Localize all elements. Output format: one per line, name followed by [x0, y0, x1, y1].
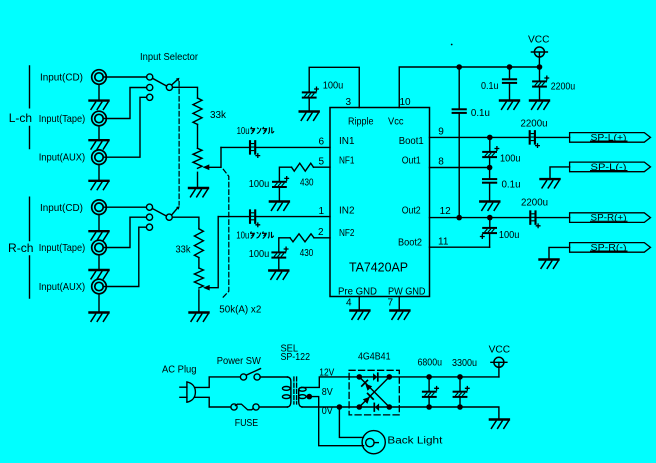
svg-text:10u: 10u: [237, 126, 250, 137]
wire C15 top: [459, 377, 461, 391]
bridge diagonal BL-TR: [359, 377, 389, 407]
wire pin9 Boot1 row: [430, 136, 530, 138]
terminal SP-L(+) underline: [591, 140, 628, 142]
fuse F1 contact 2: [253, 404, 259, 410]
capacitor C3 100u NF1: [273, 177, 289, 187]
wire rail to C6: [458, 67, 460, 109]
svg-text:0.1u: 0.1u: [502, 180, 521, 191]
transformer T1 secondary loop 2: [299, 395, 306, 399]
wire J5 to ground: [98, 255, 100, 269]
switch SW1a contact CD: [147, 74, 153, 80]
wire J6 to selector: [104, 227, 147, 286]
diode D1 top: [373, 373, 378, 381]
pot L wiper wire: [209, 147, 221, 167]
resistor 430 R: [290, 234, 314, 242]
node Out2 junction C12: [487, 215, 493, 221]
switch gang dashed link: [178, 82, 180, 206]
capacitor C1 10u tantalum L: [250, 141, 260, 157]
svg-text:100u: 100u: [323, 81, 344, 92]
wire C5 to ground: [308, 98, 310, 110]
svg-text:8: 8: [438, 157, 444, 168]
svg-text:0V: 0V: [322, 406, 333, 417]
capacitor C5 100u ripple: [303, 87, 319, 97]
svg-text:Input(Tape): Input(Tape): [39, 114, 85, 125]
ground under C7: [500, 101, 519, 110]
terminal SP-L(-): [570, 162, 651, 172]
svg-text:100u: 100u: [249, 249, 269, 260]
wire wiper R to C2: [218, 216, 249, 218]
wire pot R to ground: [198, 290, 200, 311]
capacitor C11 2200u SP-L coupling: [530, 131, 540, 147]
node Vcc rail junction 2: [507, 64, 513, 70]
switch SW1b gang stub: [172, 208, 178, 215]
ground pin4: [350, 311, 369, 320]
wire J4 to selector: [104, 206, 147, 208]
switch SW2 arm: [247, 369, 261, 375]
pot R wiper wire: [209, 217, 218, 288]
svg-text:100u: 100u: [500, 153, 521, 164]
node 6800u top: [426, 374, 432, 380]
wire VCC symbol drop: [538, 52, 540, 67]
node 3300u top: [457, 374, 463, 380]
ground under J5: [90, 270, 109, 279]
svg-text:Pre GND: Pre GND: [338, 287, 377, 298]
jack J5 Input(Tape) R: [92, 240, 107, 255]
ground under pot R: [190, 313, 209, 322]
R-ch bracket: [29, 197, 31, 298]
node Out2 junction C6: [456, 215, 462, 221]
wire J1 to ground: [98, 84, 100, 99]
wire R430 R to C4: [279, 238, 290, 252]
pot L wiper arrow: [203, 164, 210, 170]
wire C10 to ground: [489, 183, 491, 200]
capacitor C13 2200u SP-R coupling: [530, 211, 540, 227]
svg-text:3300u: 3300u: [452, 358, 477, 369]
node 8V tap: [307, 394, 313, 400]
wire plug to switch: [195, 377, 240, 388]
resistor 430 L: [292, 163, 314, 171]
switch SW1a arm: [153, 78, 167, 86]
svg-text:Back Light: Back Light: [387, 436, 442, 447]
wire C7 to ground: [509, 83, 511, 99]
svg-text:8V: 8V: [322, 387, 333, 398]
svg-text:430: 430: [300, 178, 314, 189]
svg-text:IN1: IN1: [339, 136, 355, 147]
wire pin10 to VCC rail: [399, 67, 539, 108]
wire VCC2 drop: [498, 363, 500, 377]
switch SW1b gang arrowhead: [176, 206, 180, 210]
jack J3 Input(AUX) L: [92, 150, 107, 165]
wire SW1b pole to volume R: [172, 217, 199, 229]
wire pin8 Out1 row: [430, 167, 490, 169]
svg-text:2200u: 2200u: [521, 197, 548, 208]
switch SW1b arm: [152, 209, 166, 217]
switch SW2 power contact 1: [240, 374, 246, 380]
wire C9 bottom: [489, 158, 491, 168]
wire J5 to selector: [104, 217, 147, 247]
diode D2 bottom: [374, 403, 379, 411]
wire DC- rail: [389, 407, 499, 418]
ground SP-R(-): [540, 260, 559, 269]
svg-text:VCC: VCC: [528, 35, 550, 46]
svg-text:TA7420AP: TA7420AP: [349, 260, 408, 275]
wire pin5 to R430 L: [314, 166, 331, 168]
svg-text:50k(A) x2: 50k(A) x2: [219, 305, 261, 316]
jack J4 Input(CD) R: [92, 200, 107, 215]
ground SP-L(-): [541, 179, 560, 188]
svg-text:12: 12: [440, 206, 452, 217]
svg-text:2200u: 2200u: [551, 82, 576, 93]
wire R430 L to C3: [279, 167, 291, 181]
switch SW1a contact AUX: [147, 94, 153, 100]
wire pin11 Boot2 row: [430, 246, 490, 248]
bridge diagonal TL-BR: [359, 377, 389, 407]
terminal SP-L(-) underline: [591, 170, 628, 172]
svg-text:6800u: 6800u: [418, 357, 443, 368]
ground under J4: [90, 231, 109, 240]
svg-text:Input(AUX): Input(AUX): [39, 153, 85, 164]
resistor 33k R: [194, 229, 203, 258]
svg-text:0.1u: 0.1u: [481, 81, 499, 92]
svg-text:NF2: NF2: [339, 228, 355, 239]
L-ch bracket: [29, 66, 31, 149]
svg-text:5: 5: [319, 156, 325, 167]
switch SW1b pole: [166, 214, 172, 220]
wire C12 top: [489, 218, 491, 228]
wire J2 to selector: [104, 88, 147, 119]
wire J2 to ground: [98, 126, 100, 139]
svg-text:NF1: NF1: [339, 156, 355, 167]
wire C11 to SP-L(+): [536, 136, 570, 138]
terminal SP-R(-): [570, 243, 651, 253]
wire SW1a pole to volume: [173, 87, 198, 98]
jack J6 Input(AUX) R: [92, 279, 107, 294]
svg-text:R-ch: R-ch: [8, 241, 34, 255]
svg-text:430: 430: [300, 248, 314, 259]
pot R wiper arrow: [203, 285, 210, 291]
node bridge BR: [387, 404, 393, 410]
ground under J1: [90, 101, 109, 110]
ground under C8: [530, 101, 549, 110]
svg-text:Out2: Out2: [402, 206, 421, 217]
wire C4 to ground: [278, 258, 280, 269]
wire Out1 to C10: [489, 168, 491, 179]
svg-text:VCC: VCC: [489, 345, 511, 356]
wire pin3 ripple: [309, 67, 359, 107]
AC plug prongs: [180, 387, 187, 397]
svg-text:4G4B41: 4G4B41: [358, 352, 391, 363]
ground under J6: [90, 313, 109, 322]
wire C9 top: [489, 137, 491, 151]
svg-text:3: 3: [346, 97, 352, 108]
wire switch to transformer: [260, 376, 287, 378]
bridge top wire: [359, 376, 389, 378]
transformer T1 primary loop 1: [282, 387, 290, 391]
wire 0V to lamp: [339, 407, 363, 437]
svg-text:Input(AUX): Input(AUX): [39, 282, 85, 293]
svg-text:9: 9: [438, 127, 444, 138]
capacitor C8 2200u filter: [533, 76, 549, 86]
svg-text:Input Selector: Input Selector: [140, 52, 199, 63]
svg-text:1: 1: [319, 206, 325, 217]
capacitor C9 100u boot1: [483, 147, 499, 157]
switch SW2 power contact 2: [254, 374, 260, 380]
svg-text:Boot2: Boot2: [398, 238, 422, 249]
ground under pot L: [189, 188, 208, 197]
svg-text:6: 6: [319, 137, 325, 148]
wire pot L to ground: [197, 172, 199, 187]
ground under J3: [90, 181, 109, 190]
svg-text:SP-122: SP-122: [281, 352, 311, 363]
wire J4 to ground: [98, 215, 100, 230]
wire SP-L(-) to ground: [550, 167, 570, 178]
label katakana tantalum R: [250, 232, 274, 239]
transformer T1 secondary loop 1: [299, 387, 306, 391]
potentiometer 50k L: [193, 148, 202, 168]
wire C14 top: [428, 377, 430, 391]
wire C6 to Out2: [458, 113, 460, 217]
wire C15 bottom: [459, 398, 461, 408]
svg-text:Input(CD): Input(CD): [40, 203, 83, 214]
svg-text:10u: 10u: [236, 231, 249, 242]
capacitor C10 0.1u zobel: [483, 179, 496, 183]
capacitor C12 100u boot2: [481, 228, 497, 238]
wire pin2 to R430 R: [314, 237, 330, 239]
svg-text:2200u: 2200u: [521, 118, 548, 129]
svg-text:IN2: IN2: [339, 206, 355, 217]
svg-text:2: 2: [318, 227, 324, 238]
svg-text:SP-R(+): SP-R(+): [591, 213, 627, 223]
svg-text:100u: 100u: [249, 179, 269, 190]
node Boot1 junction: [487, 135, 493, 141]
svg-text:33k: 33k: [176, 245, 192, 256]
VCC terminal top: [531, 47, 547, 57]
terminal SP-L(+): [570, 133, 651, 143]
wire wiper L to C1: [221, 146, 249, 148]
capacitor C7 0.1u: [503, 79, 516, 83]
wire rail to C7: [509, 67, 511, 79]
svg-text:FUSE: FUSE: [235, 418, 259, 429]
svg-text:Input(CD): Input(CD): [40, 73, 83, 84]
lamp back light: [362, 431, 385, 454]
ground pin7: [390, 311, 409, 320]
switch SW1b contact CD: [146, 204, 152, 210]
node DC- 6800u: [426, 404, 432, 410]
svg-text:Boot1: Boot1: [399, 136, 424, 147]
switch SW1b contact AUX: [146, 224, 152, 230]
ground DC-: [490, 420, 509, 429]
terminal SP-R(+): [570, 213, 651, 223]
wire plug to fuse: [195, 397, 231, 407]
wire 33k to pot L: [197, 124, 199, 148]
svg-text:Out1: Out1: [402, 156, 421, 167]
wire pin4 PreGND stub: [358, 297, 360, 310]
wire J3 to selector: [104, 97, 147, 157]
wire C12 bottom to pin11: [489, 234, 491, 248]
stray dot: [451, 44, 453, 46]
node 0V junction: [337, 404, 343, 410]
switch SW1a contact Tape: [147, 84, 153, 90]
AC plug body: [187, 382, 196, 402]
label katakana tantalum L: [250, 127, 274, 134]
capacitor C15 3300u: [454, 387, 470, 397]
wire C1 to pin6: [256, 146, 330, 148]
svg-text:10: 10: [400, 97, 412, 108]
svg-text:SP-R(-): SP-R(-): [591, 242, 627, 252]
svg-text:12V: 12V: [319, 367, 334, 378]
svg-text:33k: 33k: [210, 110, 227, 121]
svg-text:0.1u: 0.1u: [471, 108, 490, 119]
wire J3 to ground: [98, 165, 100, 180]
node bridge TR: [387, 374, 393, 380]
wire C3 to ground: [278, 188, 280, 201]
lamp filament: [366, 438, 374, 446]
transformer T1 primary loop 2: [282, 395, 290, 399]
wire C13 to SP-R(+): [537, 217, 570, 219]
svg-text:L-ch: L-ch: [9, 111, 32, 125]
op-amp U1 TA7420AP body: [330, 108, 430, 297]
ground under C3: [270, 202, 289, 211]
fuse F1 wire: [235, 404, 253, 410]
wire 0V row: [302, 406, 359, 408]
capacitor C2 10u tantalum R: [250, 210, 260, 226]
wire J6 to ground: [98, 294, 100, 311]
lamp filament tick: [374, 442, 378, 444]
bridge bottom wire: [359, 406, 389, 408]
jack J2 Input(Tape) L: [92, 111, 107, 126]
wire DC+ rail: [389, 376, 499, 378]
svg-text:11: 11: [438, 237, 449, 248]
ground under J2: [90, 140, 109, 149]
wire 33k R to pot R: [198, 258, 200, 268]
node DC- 3300u: [457, 404, 463, 410]
resistor 33k L: [193, 98, 202, 124]
switch SW1a gang arrowhead: [176, 78, 180, 82]
svg-text:Vcc: Vcc: [388, 117, 404, 128]
VCC terminal bottom: [491, 357, 507, 367]
svg-text:Ripple: Ripple: [348, 117, 374, 128]
jack J1 Input(CD) L: [92, 70, 107, 85]
bridge D1-D4 dashed box: [349, 370, 399, 415]
wire fuse to transformer: [259, 406, 287, 408]
svg-text:100u: 100u: [499, 230, 520, 241]
wire C2 to pin1: [256, 216, 330, 218]
switch SW1a gang stub: [172, 79, 178, 84]
wire 12V tap: [302, 377, 360, 388]
ground under C5: [300, 112, 319, 121]
svg-text:Power SW: Power SW: [217, 356, 262, 367]
potentiometer 50k R: [194, 268, 203, 288]
transformer T1 primary: [288, 377, 291, 407]
svg-text:SP-L(+): SP-L(+): [591, 132, 627, 142]
terminal SP-R(+) underline: [591, 220, 628, 222]
svg-text:4: 4: [346, 298, 352, 309]
wire C14 bottom: [428, 398, 430, 408]
diode D3 diagonal TL-BR: [362, 380, 372, 390]
node Out1 junction: [487, 165, 493, 171]
wire 8V tap to lamp: [306, 397, 363, 446]
ground under C10: [480, 202, 499, 211]
transformer T1 secondary: [299, 387, 302, 407]
node Vcc rail junction 1: [456, 64, 462, 70]
svg-text:SP-L(-): SP-L(-): [591, 162, 627, 172]
pot gang dashed link: [222, 169, 229, 298]
node Vcc rail junction 3: [537, 64, 543, 70]
wire pin7 PWGND stub: [398, 297, 400, 310]
wire pin12 Out2 row: [430, 217, 530, 219]
capacitor C4 100u NF2: [272, 247, 288, 257]
capacitor C14 6800u: [423, 387, 439, 397]
fuse F1 contact 1: [231, 404, 237, 410]
wire J1 to selector: [104, 76, 147, 78]
switch SW1b contact Tape: [146, 214, 152, 220]
wire SP-R(-) to ground: [549, 247, 570, 258]
ground under C4: [269, 271, 288, 280]
svg-text:PW GND: PW GND: [388, 287, 426, 298]
svg-text:7: 7: [388, 298, 394, 309]
svg-text:Input(Tape): Input(Tape): [39, 243, 85, 254]
node bridge TL: [357, 374, 363, 380]
node bridge BL: [357, 404, 363, 410]
transformer T1 core: [294, 377, 297, 404]
diode D4 diagonal BL-TR: [363, 394, 373, 404]
switch SW1a pole: [166, 84, 172, 90]
capacitor C6 0.1u: [453, 109, 466, 113]
svg-text:AC Plug: AC Plug: [162, 364, 197, 375]
wire rail to C8: [539, 67, 541, 81]
wire C8 to ground: [539, 87, 541, 99]
terminal SP-R(-) underline: [591, 250, 628, 252]
